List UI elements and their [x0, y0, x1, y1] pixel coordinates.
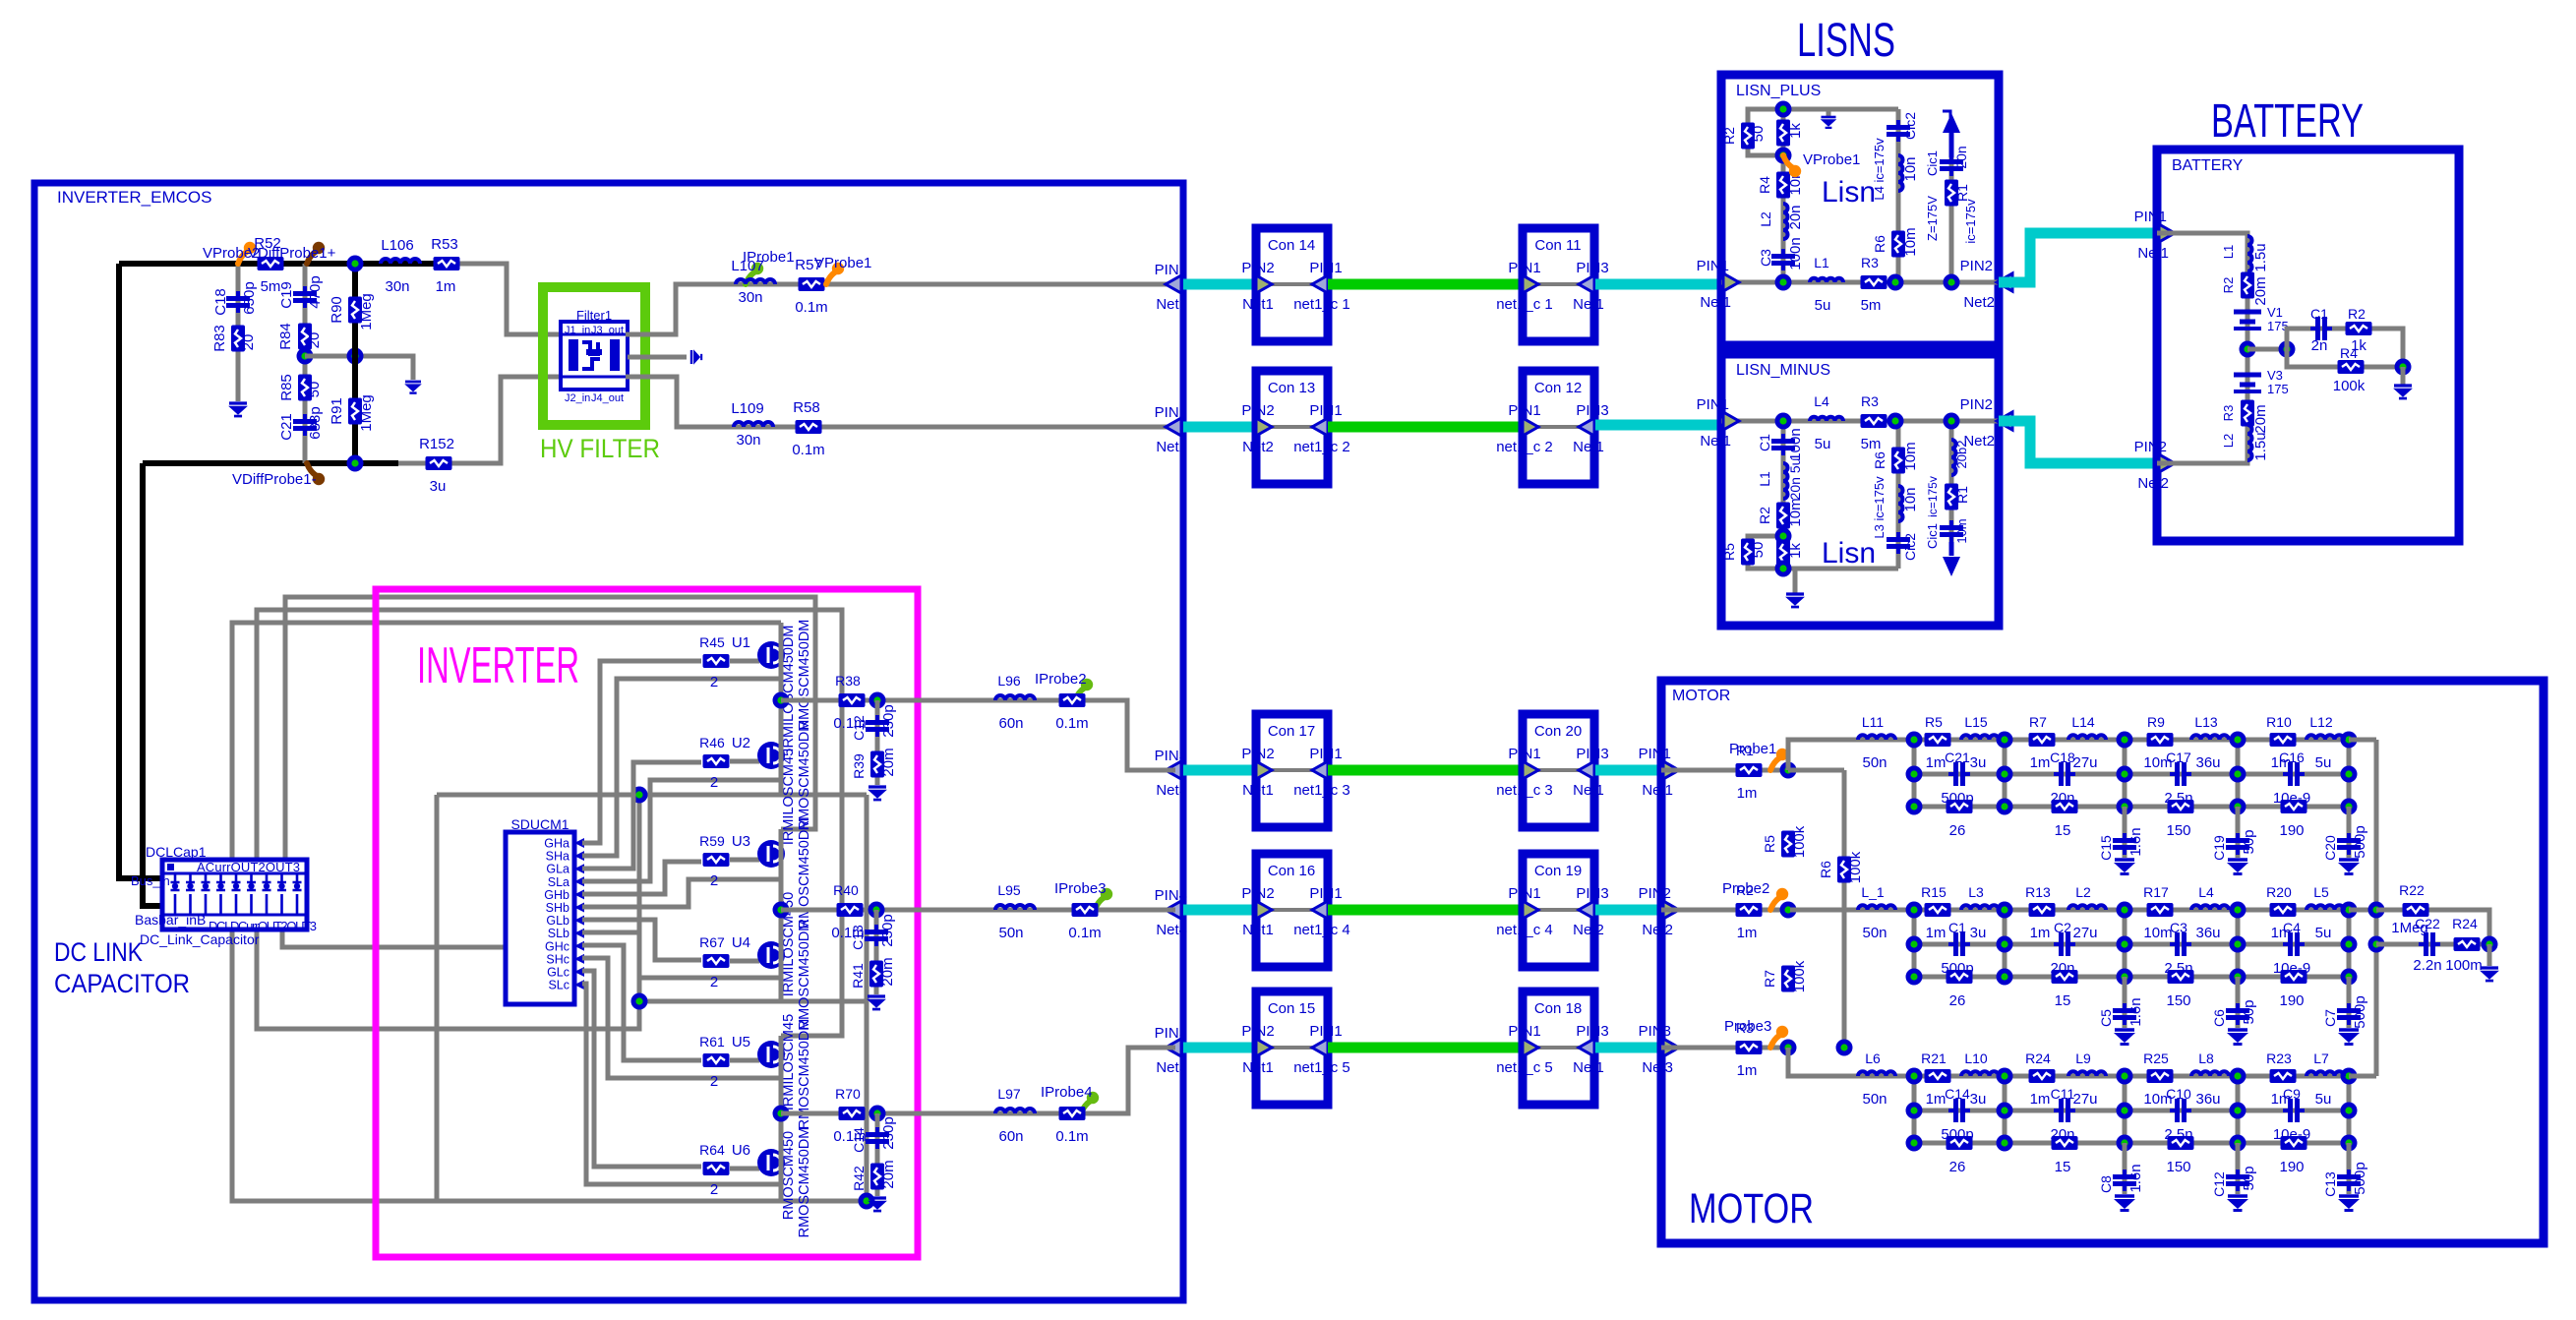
- svg-text:C13: C13: [2322, 1171, 2338, 1197]
- wire motor input A: [1661, 768, 1788, 773]
- junction col 2160 r1 B: [2117, 902, 2133, 919]
- svg-text:C6: C6: [2211, 1009, 2227, 1027]
- inductor L3m 10n: [1898, 486, 1903, 521]
- svg-text:PIN5: PIN5: [1155, 1025, 1187, 1042]
- pin SHb of SDUCM1: [546, 901, 584, 915]
- pin SHc of SDUCM1: [546, 952, 584, 966]
- junction motor 100k bottom: [1836, 1040, 1853, 1056]
- capacitor C18 20n (motor A): [2054, 762, 2075, 786]
- svg-text:27u: 27u: [2072, 754, 2097, 771]
- resistor R67 2 (gate of U4): [699, 934, 759, 990]
- resistor Rm5 100k a: [1781, 831, 1795, 858]
- capacitor C15 1.6n to ground (motor A): [2098, 807, 2144, 874]
- svg-text:2: 2: [710, 774, 718, 791]
- svg-text:175: 175: [2267, 382, 2289, 396]
- svg-text:1.6n: 1.6n: [2127, 827, 2144, 856]
- svg-text:L13: L13: [2194, 714, 2218, 730]
- net green net1_c 5: [1328, 1043, 1523, 1053]
- junction star a: [2368, 902, 2385, 919]
- voltage probe VProbe1 (lisn): [1783, 155, 1793, 168]
- resistor Rm1 1m: [1736, 763, 1763, 777]
- svg-text:3u: 3u: [1970, 754, 1987, 771]
- resistor R90 1Meg: [348, 297, 362, 324]
- svg-text:50p: 50p: [2241, 829, 2257, 854]
- svg-text:R152: R152: [419, 436, 454, 452]
- svg-text:R91: R91: [329, 397, 345, 425]
- transistor module U3: [732, 833, 785, 868]
- net cyan Net2 a: [1183, 422, 1256, 433]
- svg-text:R85: R85: [278, 374, 295, 401]
- svg-text:C17: C17: [2166, 750, 2191, 765]
- connector Con 14: [1241, 228, 1349, 341]
- junction col 1946 r2 C: [1906, 1103, 1923, 1119]
- svg-text:PIN2: PIN2: [1960, 258, 1993, 274]
- svg-text:50p: 50p: [2241, 1166, 2257, 1190]
- inductor L1 5u: [1810, 278, 1843, 282]
- resistor R7 1m (motor A): [2029, 733, 2056, 747]
- svg-text:PIN3: PIN3: [1576, 260, 1608, 276]
- svg-text:Net3: Net3: [1642, 1059, 1673, 1076]
- svg-text:Probe1: Probe1: [1729, 741, 1776, 757]
- transistor module U6: [732, 1142, 785, 1176]
- svg-text:R41: R41: [850, 963, 866, 989]
- svg-text:R4: R4: [1757, 176, 1772, 194]
- svg-text:R5: R5: [1721, 543, 1737, 561]
- wire motor column x1946 phase C: [1912, 1076, 1917, 1143]
- svg-text:100n: 100n: [1787, 237, 1804, 270]
- svg-text:2n: 2n: [2311, 337, 2328, 354]
- svg-text:Net1: Net1: [1642, 782, 1673, 799]
- svg-text:Net1: Net1: [1242, 922, 1274, 938]
- capacitor C16 10e-9 (motor A): [2283, 762, 2305, 786]
- wire top DC+ (black): [119, 261, 454, 267]
- svg-text:R5: R5: [1925, 714, 1943, 730]
- wire C19 branch: [303, 264, 308, 463]
- wire motor star right column: [2374, 740, 2379, 1076]
- inductor L5 5u (motor B): [2306, 905, 2344, 910]
- svg-text:36u: 36u: [2195, 754, 2220, 771]
- inductor L7 5u (motor C): [2306, 1071, 2344, 1076]
- svg-text:20m: 20m: [879, 957, 896, 986]
- svg-text:U5: U5: [732, 1034, 750, 1050]
- resistor R45 2 (gate of U1): [699, 634, 759, 690]
- inductor L107 30n: [736, 279, 775, 284]
- svg-text:R20: R20: [2266, 884, 2292, 900]
- resistor R42 20m (phase C): [870, 1164, 884, 1190]
- wire battery RC top path: [2287, 329, 2403, 367]
- capacitor C8 1.6n to ground (motor C): [2098, 1143, 2144, 1211]
- svg-text:L6: L6: [1865, 1050, 1881, 1066]
- svg-text:C9: C9: [2283, 1086, 2301, 1102]
- svg-text:PIN1: PIN1: [2134, 209, 2167, 225]
- ground LISN_PLUS: [1827, 109, 1831, 117]
- svg-text:3u: 3u: [1970, 1091, 1987, 1108]
- wire U4 leg: [779, 910, 784, 1001]
- junction col 2275 r3 A: [2230, 799, 2247, 815]
- svg-text:2.2n: 2.2n: [2413, 957, 2441, 974]
- svg-text:5u: 5u: [2315, 754, 2332, 771]
- capacitor Cb1 2n: [2310, 317, 2332, 340]
- resistor R59 2 (gate of U3): [699, 833, 759, 889]
- wire gate GHb: [582, 862, 701, 894]
- svg-text:10m: 10m: [1902, 227, 1919, 256]
- svg-text:L2: L2: [1758, 211, 1773, 227]
- resistor R16 26 (motor B row3): [1947, 970, 1973, 984]
- diff probe VDiffProbe1+: [307, 251, 317, 264]
- wire motor column x2160 phase B: [2123, 910, 2127, 977]
- resistor Rm6 100k b: [1837, 857, 1851, 883]
- svg-text:190: 190: [2279, 822, 2304, 839]
- component DC_Link_Capacitor block: [162, 860, 307, 930]
- svg-text:20n: 20n: [1953, 146, 1969, 168]
- resistor R85 50: [298, 375, 312, 401]
- resistor R40 0.1m (phase B): [837, 903, 864, 917]
- svg-text:470p: 470p: [307, 275, 324, 308]
- svg-text:100m: 100m: [2445, 957, 2483, 974]
- svg-text:C11: C11: [2051, 1086, 2075, 1102]
- junction LISN_PLUS top: [1775, 101, 1792, 118]
- resistor R38 0.1m (phase A): [839, 693, 866, 707]
- svg-text:L107: L107: [731, 258, 763, 274]
- svg-text:C15: C15: [2098, 835, 2114, 861]
- resistor R18 15 (motor A row3): [2052, 800, 2078, 813]
- svg-text:1Meg: 1Meg: [358, 394, 375, 432]
- pin PIN1 Net1 of LISN: [1697, 258, 1739, 311]
- junction phase A drop: [869, 692, 886, 709]
- wire gate SLc: [582, 984, 781, 1184]
- svg-text:50: 50: [1750, 542, 1767, 559]
- svg-text:1m: 1m: [1926, 754, 1947, 771]
- svg-text:R70: R70: [835, 1086, 861, 1102]
- inductor Lb2 1.5u: [2247, 425, 2252, 460]
- connector Con 19: [1496, 854, 1608, 967]
- svg-text:C1: C1: [1757, 434, 1772, 451]
- svg-text:IProbe3: IProbe3: [1054, 880, 1107, 897]
- resistor R13 1m (motor B): [2029, 903, 2056, 917]
- svg-text:SLc: SLc: [548, 979, 569, 992]
- junction battery mid: [2240, 341, 2256, 358]
- svg-text:50p: 50p: [2241, 999, 2257, 1024]
- svg-text:1m: 1m: [436, 278, 456, 295]
- capacitor C1m 100n: [1771, 434, 1795, 455]
- svg-text:Net2: Net2: [1963, 433, 1995, 450]
- junction low rail a: [631, 787, 648, 804]
- pin PIN1 Net1 of BATTERY: [2134, 209, 2175, 262]
- svg-text:0.1m: 0.1m: [1055, 715, 1088, 732]
- svg-text:U4: U4: [732, 934, 750, 951]
- wire motor column x2388 phase B: [2347, 910, 2352, 977]
- svg-text:26: 26: [1949, 992, 1966, 1009]
- resistor R29 150 (motor C row3): [2168, 1136, 2194, 1150]
- junction col 2160 r3 B: [2117, 969, 2133, 986]
- resistor R57 0.1m: [799, 277, 825, 291]
- wire LISN_MINUS left branch: [1781, 421, 1786, 569]
- wire gate GHc: [582, 945, 701, 1060]
- wire motor column x2275 phase A: [2236, 740, 2241, 807]
- svg-text:C8: C8: [2098, 1175, 2114, 1193]
- resistor R25 10m (motor C): [2147, 1069, 2174, 1083]
- wire motor A stub: [1788, 768, 1844, 773]
- capacitor C3 100n: [1771, 249, 1795, 270]
- diff probe VDiffProbe1-: [307, 463, 317, 476]
- capacitor C19 470p: [293, 286, 317, 308]
- junction col 2275 r3 C: [2230, 1135, 2247, 1152]
- junction star b: [2368, 936, 2385, 953]
- wire LISN_PLUS 50ohm loop: [1748, 109, 1783, 155]
- ground phase B: [867, 996, 886, 1009]
- junction top divider: [347, 256, 364, 272]
- capacitor C14 500p (motor C): [1948, 1099, 1970, 1122]
- svg-text:IProbe4: IProbe4: [1041, 1084, 1093, 1101]
- svg-text:50: 50: [306, 382, 323, 398]
- svg-text:R7: R7: [2029, 714, 2047, 730]
- svg-text:PIN1: PIN1: [1697, 396, 1729, 413]
- probe Probe2 motor: [1770, 897, 1780, 910]
- svg-text:C18: C18: [2050, 750, 2075, 765]
- junction LISN_MINUS d: [1775, 528, 1792, 545]
- capacitor C7 500p to ground (motor B): [2322, 977, 2368, 1045]
- svg-text:U1: U1: [732, 634, 750, 651]
- svg-text:2: 2: [710, 674, 718, 690]
- svg-text:Con 19: Con 19: [1534, 863, 1582, 879]
- voltage probe VProbe1: [826, 271, 836, 284]
- svg-text:500p: 500p: [2352, 995, 2368, 1028]
- resistor R10 1m (motor A): [2270, 733, 2297, 747]
- pin GHa of SDUCM1: [544, 837, 584, 851]
- junction col 2275 r2 C: [2230, 1103, 2247, 1119]
- svg-text:1m: 1m: [2030, 1091, 2051, 1108]
- svg-text:1m: 1m: [1737, 1062, 1758, 1079]
- junction col 2038 r2 C: [1997, 1103, 2013, 1119]
- connector Con 13: [1241, 371, 1349, 484]
- svg-text:50n: 50n: [1862, 754, 1887, 771]
- wire U5 leg: [779, 1036, 784, 1113]
- svg-text:R3: R3: [2221, 405, 2236, 422]
- inductor Lb1 1.5u: [2247, 236, 2252, 271]
- svg-text:Con 12: Con 12: [1534, 380, 1582, 396]
- inductor L12 5u (motor A): [2306, 735, 2344, 740]
- svg-text:27u: 27u: [2072, 1091, 2097, 1108]
- svg-text:LISNS: LISNS: [1797, 15, 1895, 67]
- junction col 2388 r2 B: [2341, 936, 2358, 953]
- inductor L14 27u (motor A): [2068, 735, 2106, 740]
- pin GHb of SDUCM1: [544, 888, 584, 902]
- resistor R5 1k: [1776, 120, 1790, 147]
- resistor R41 20m (phase B): [869, 961, 883, 988]
- resistor Rb5 100k: [2338, 360, 2365, 374]
- svg-text:20m: 20m: [880, 748, 897, 776]
- svg-text:100k: 100k: [2333, 378, 2366, 394]
- junction LISN_MINUS bottom: [1775, 561, 1792, 577]
- svg-text:PIN2: PIN2: [1241, 260, 1274, 276]
- subcircuit box BATTERY: [2157, 150, 2459, 541]
- svg-text:PIN2: PIN2: [1241, 1023, 1274, 1040]
- wire phase B row: [781, 908, 1175, 913]
- svg-text:L95: L95: [997, 882, 1021, 898]
- net green net1_c 3: [1328, 765, 1523, 776]
- svg-text:ACurrOUT2OUT3: ACurrOUT2OUT3: [197, 860, 300, 874]
- junction col 1946 r1 C: [1906, 1068, 1923, 1085]
- svg-text:1.5u: 1.5u: [2252, 243, 2269, 271]
- junction phase C drop: [869, 1106, 886, 1122]
- svg-text:R24: R24: [2452, 916, 2478, 931]
- inductor L_1 50n (motor B): [1858, 905, 1895, 910]
- junction LISN_MINUS a: [1775, 413, 1792, 430]
- net cyan motor Net2: [1595, 905, 1661, 916]
- resistor R83 20: [231, 326, 245, 352]
- capacitor C17 2.5n (motor A): [2170, 762, 2191, 786]
- resistor Rb4 1k: [2346, 322, 2372, 335]
- svg-text:Probe3: Probe3: [1724, 1018, 1771, 1035]
- svg-text:IProbe2: IProbe2: [1035, 671, 1087, 688]
- resistor R1m (minus): [1945, 484, 1958, 510]
- resistor R22m 1Meg: [2403, 903, 2429, 917]
- wire LISN_MINUS bottom: [1783, 567, 1898, 571]
- junction col 2160 r3 A: [2117, 799, 2133, 815]
- wire gate SHa: [582, 679, 781, 856]
- junction col 2275 r1 C: [2230, 1068, 2247, 1085]
- capacitor C21 500p (motor A): [1948, 762, 1970, 786]
- svg-text:SLb: SLb: [548, 927, 569, 940]
- svg-text:L11: L11: [1862, 714, 1885, 730]
- svg-text:VDiffProbe1-: VDiffProbe1-: [232, 471, 317, 488]
- pin SLc of SDUCM1: [548, 979, 584, 992]
- resistor R27 26 (motor C row3): [1947, 1136, 1973, 1150]
- wire motor column x2388 phase C: [2347, 1076, 2352, 1143]
- svg-text:GLc: GLc: [547, 966, 569, 980]
- wire phase C row: [781, 1048, 1175, 1113]
- svg-text:Con 14: Con 14: [1268, 237, 1315, 254]
- resistor Rb2 20m: [2241, 400, 2254, 427]
- pin SLa of SDUCM1: [548, 875, 584, 889]
- capacitor C21 633p: [293, 414, 317, 436]
- svg-text:0.1m: 0.1m: [1055, 1128, 1088, 1145]
- svg-text:C19: C19: [278, 281, 295, 309]
- svg-text:R2: R2: [1757, 507, 1772, 524]
- net cyan to LISN_PLUS: [1595, 279, 1721, 290]
- ground LISN_MINUS: [1793, 569, 1798, 594]
- inductor L4 10n: [1898, 155, 1903, 191]
- svg-text:190: 190: [2279, 1159, 2304, 1175]
- svg-text:L4: L4: [2198, 884, 2214, 900]
- junction col 2388 r3 B: [2341, 969, 2358, 986]
- resistor R18 190 (motor B row3): [2281, 970, 2307, 984]
- junction col 2038 r1 A: [1997, 732, 2013, 749]
- svg-text:RMOSCM450DM: RMOSCM450DM: [797, 620, 812, 731]
- svg-text:15: 15: [2055, 1159, 2071, 1175]
- svg-text:PIN1: PIN1: [1639, 746, 1671, 762]
- svg-text:PIN2: PIN2: [1155, 404, 1187, 421]
- junction col 1946 r3 A: [1906, 799, 1923, 815]
- svg-text:100k: 100k: [1847, 851, 1864, 883]
- junction col 2038 r3 A: [1997, 799, 2013, 815]
- inductor L10 3u (motor C): [1961, 1071, 1999, 1076]
- filter block Filter1: [561, 308, 628, 404]
- wire LISN_MINUS 50ohm loop: [1748, 536, 1783, 569]
- svg-text:VDiffProbe1+: VDiffProbe1+: [248, 245, 336, 262]
- resistor R56 0.1m (phase A out): [1059, 693, 1086, 707]
- wire motor ladder row3 phase C: [1914, 1141, 2349, 1146]
- svg-text:R22: R22: [2399, 882, 2425, 898]
- svg-text:Net1: Net1: [1242, 1059, 1274, 1076]
- wire bottom DC- (black): [143, 460, 398, 466]
- resistor R53 1m: [434, 257, 460, 270]
- svg-text:INVERTER_EMCOS: INVERTER_EMCOS: [57, 188, 211, 207]
- capacitor C13 500p to ground (motor C): [2322, 1143, 2368, 1211]
- svg-text:L3: L3: [1968, 884, 1984, 900]
- svg-text:PIN1: PIN1: [1155, 262, 1187, 278]
- battery V3 175: [2234, 375, 2261, 391]
- junction LISN_PLUS b: [1887, 274, 1904, 291]
- resistor R22 15 (motor C row3): [2052, 1136, 2078, 1150]
- box HV FILTER (green): [543, 287, 645, 425]
- svg-text:DCLCap1: DCLCap1: [146, 844, 207, 860]
- wire motor input C: [1661, 1046, 1788, 1050]
- junction LISN_MINUS c: [1944, 413, 1960, 430]
- net cyan LISN_PLUS to battery: [1999, 233, 2157, 282]
- svg-text:C20: C20: [2322, 835, 2338, 861]
- svg-text:R42: R42: [851, 1166, 867, 1191]
- pin PIN1 Net1 of INVERTER_EMCOS: [1155, 262, 1187, 313]
- svg-text:R64: R64: [699, 1142, 725, 1158]
- svg-text:L2: L2: [2075, 884, 2091, 900]
- svg-text:C2: C2: [2054, 920, 2071, 935]
- svg-text:1.5u: 1.5u: [2252, 432, 2269, 460]
- wire to ground mid: [305, 356, 413, 380]
- svg-text:26: 26: [1949, 1159, 1966, 1175]
- svg-text:500p: 500p: [2352, 825, 2368, 858]
- inductor L2 20n: [1783, 204, 1788, 239]
- svg-text:R2: R2: [2221, 277, 2236, 294]
- inductor L95 50n (phase B): [995, 905, 1035, 910]
- inductor L106 30n: [381, 259, 420, 264]
- resistor R2 50: [1741, 123, 1755, 150]
- transistor module U2: [732, 735, 785, 769]
- svg-text:L10: L10: [1964, 1050, 1988, 1066]
- svg-text:20n: 20n: [1787, 205, 1804, 229]
- svg-text:VProbe1: VProbe1: [814, 255, 871, 271]
- net cyan Net4: [1183, 905, 1256, 916]
- wire motor ladder row2 phase A: [1914, 772, 2349, 777]
- capacitor C2 20n (motor B): [2054, 932, 2075, 956]
- wire star to 1Meg: [2376, 910, 2489, 944]
- svg-text:0.1m: 0.1m: [795, 299, 827, 316]
- svg-text:Cic2: Cic2: [1902, 533, 1918, 561]
- wire motor ladder row1 phase B: [1790, 908, 2349, 913]
- resistor R4 10m: [1776, 172, 1790, 199]
- ground below C18 branch: [228, 403, 248, 416]
- inductor L6 50n (motor C): [1858, 1071, 1895, 1076]
- svg-text:C12: C12: [851, 715, 867, 741]
- svg-text:R53: R53: [431, 236, 458, 253]
- svg-text:1m: 1m: [1737, 925, 1758, 941]
- svg-text:CAPACITOR: CAPACITOR: [54, 969, 190, 998]
- svg-text:5m: 5m: [1861, 436, 1882, 452]
- net cyan motor Net3: [1595, 1043, 1661, 1053]
- junction col 2160 r2 A: [2117, 766, 2133, 783]
- svg-text:SLa: SLa: [548, 875, 569, 889]
- inductor L1m 20n: [1783, 463, 1788, 499]
- wire motor column x2038 phase B: [2003, 910, 2007, 977]
- capacitor C22 2.2n: [2419, 932, 2440, 956]
- junction phase B drop: [869, 902, 885, 919]
- svg-text:R6: R6: [1818, 861, 1833, 878]
- wire motor input B: [1661, 908, 1788, 913]
- svg-text:L8: L8: [2198, 1050, 2214, 1066]
- svg-text:R40: R40: [833, 882, 859, 898]
- svg-text:Cic1: Cic1: [1925, 523, 1940, 549]
- svg-text:Net2: Net2: [1242, 439, 1274, 455]
